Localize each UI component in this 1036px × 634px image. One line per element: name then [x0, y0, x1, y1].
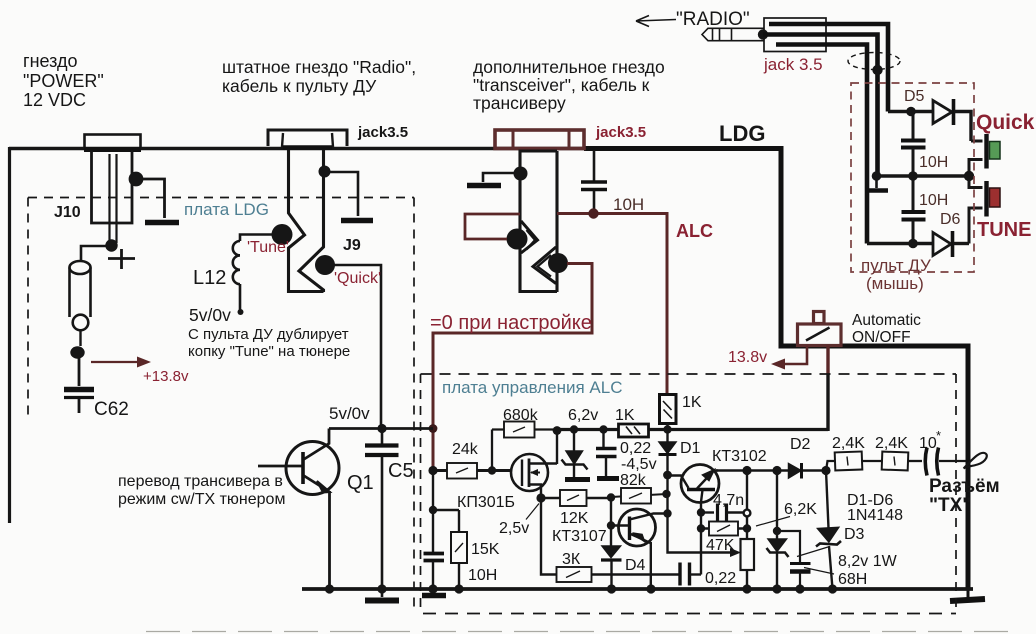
node cap 0.22 tap [599, 425, 607, 433]
wire =0 at tuning maroon [433, 264, 592, 469]
wire 6.2v supply line [556, 430, 558, 465]
svg-text:КТ3107: КТ3107 [552, 528, 607, 545]
diode D6 [933, 233, 951, 256]
callout line 68N [804, 568, 834, 575]
svg-text:4,7n: 4,7n [713, 492, 744, 509]
arrow to RADIO [636, 16, 676, 27]
svg-text:Q1: Q1 [347, 472, 374, 494]
wire gate line from =0 node [433, 469, 511, 472]
resistor 12K [560, 490, 587, 506]
capacitor 10N lower remote [912, 176, 915, 211]
wire cable line3 [776, 45, 867, 244]
wire switch to 13.8v arrow maroon [782, 346, 807, 365]
zener diode 6.2v [573, 430, 575, 452]
box plata ALC dashed right [955, 374, 957, 610]
svg-text:10Н: 10Н [468, 567, 497, 584]
wire L12 down 5v/0v stub [239, 284, 242, 310]
node transceiver ring contact [548, 253, 568, 273]
resistor 3K [557, 567, 592, 582]
svg-text:1K: 1K [682, 394, 702, 411]
node 15K rail [454, 584, 463, 593]
wire ALC line maroon [557, 214, 667, 396]
svg-text:680k: 680k [503, 407, 539, 424]
node 680k gate junction [488, 466, 496, 474]
svg-text:13.8v: 13.8v [728, 349, 767, 366]
svg-text:jack 3.5: jack 3.5 [763, 55, 823, 74]
node 82k junction [662, 490, 670, 498]
connector jack 3.5 plug tip [702, 28, 713, 40]
wire Quick contact down to 5v/0v node [333, 265, 381, 428]
resistor 82k [611, 494, 667, 497]
svg-text:jack3.5: jack3.5 [357, 124, 408, 141]
svg-text:С пульта ДУ дублирует: С пульта ДУ дублирует [188, 326, 349, 343]
node 2.5v [536, 493, 545, 502]
svg-text:D3: D3 [844, 526, 865, 543]
capacitor 0.22 lower [678, 563, 681, 586]
svg-text:2,5v: 2,5v [499, 520, 529, 537]
wire 5v/0v line [329, 427, 433, 430]
svg-text:дополнительное гнездо: дополнительное гнездо [473, 57, 665, 77]
wire KT3102 collector line [716, 469, 826, 472]
wire remote middle line [876, 174, 969, 177]
connector J9 jack socket left contact [289, 150, 324, 292]
node J10 pin dot [105, 239, 117, 251]
capacitor C5 [381, 428, 384, 444]
capacitor 10N board [432, 510, 434, 553]
capacitor 0.22 upper [602, 430, 604, 448]
svg-text:"POWER": "POWER" [23, 71, 104, 91]
svg-text:2,4K: 2,4K [875, 435, 908, 452]
svg-text:6,2v: 6,2v [568, 407, 598, 424]
svg-text:10: 10 [919, 435, 937, 452]
svg-text:J10: J10 [54, 204, 81, 221]
node 4.7n junction [697, 508, 705, 516]
box plata LDG dashed right [413, 198, 415, 614]
box plata LDG dashed left [27, 198, 29, 421]
wire D5 anode line [888, 110, 933, 113]
node zener cap branch [773, 527, 781, 535]
svg-text:TUNE: TUNE [977, 219, 1031, 241]
wire Q1 emitter to rail [328, 491, 331, 589]
cable shield ellipse [848, 53, 900, 70]
svg-text:D5: D5 [904, 88, 925, 105]
svg-text:C62: C62 [94, 399, 129, 420]
node D4 top junction [607, 521, 615, 529]
svg-text:0,22: 0,22 [705, 570, 736, 587]
node J9 sleeve junction [319, 166, 331, 178]
svg-text:-4,5v: -4,5v [621, 456, 657, 473]
wire D6 line [867, 242, 933, 245]
node C5 top [377, 424, 386, 433]
node drain bend [553, 426, 562, 435]
svg-text:1K: 1K [615, 407, 635, 424]
wire Tune contact to L12 [240, 235, 277, 242]
svg-text:режим cw/TX тюнером: режим cw/TX тюнером [118, 491, 285, 508]
svg-text:Automatic: Automatic [852, 312, 921, 329]
wire tip contact loop maroon [465, 214, 520, 239]
wire J10 sleeve to ground [136, 179, 165, 218]
wire cable line2 [763, 35, 878, 177]
node middle left [872, 171, 882, 181]
svg-text:C5: C5 [388, 460, 414, 482]
capacitor 10 star [925, 448, 927, 476]
node J10 sleeve junction [129, 172, 144, 187]
node Q1 emitter rail [325, 584, 334, 593]
svg-text:*: * [936, 428, 941, 443]
button TUNE contacts [969, 176, 983, 188]
wire KT3102 emitter down [701, 490, 703, 575]
node KT3107 base junction [663, 509, 671, 517]
resistor 2.4K second [882, 452, 909, 471]
button TUNE plunger and cap red [984, 181, 988, 217]
node 12K 82k junction [607, 493, 615, 501]
node D4 rail [607, 584, 616, 593]
wire KT3107 emitter to rail [650, 542, 652, 589]
connector jack 3.5 plug body [764, 18, 826, 52]
svg-text:12K: 12K [560, 510, 589, 527]
resistor 15K [458, 510, 460, 532]
svg-text:ON/OFF: ON/OFF [852, 329, 911, 346]
connector transceiver jack socket left contact [520, 151, 557, 292]
box plata LDG dashed top [28, 197, 414, 199]
button Quick contacts [971, 140, 983, 143]
ground J9 sleeve [341, 218, 373, 224]
svg-text:D4: D4 [625, 557, 646, 574]
transistor KT3107 [619, 509, 656, 546]
capacitor 10N upper remote [912, 112, 915, 140]
box plata ALC dashed left [420, 374, 422, 613]
svg-text:"transceiver", кабель к: "transceiver", кабель к [473, 75, 650, 95]
svg-text:10Н: 10Н [613, 195, 644, 214]
svg-text:10Н: 10Н [919, 154, 948, 171]
wire ground rail bottom [302, 587, 973, 591]
wire main 12V bus top [9, 147, 586, 150]
callout line 6.2K [756, 517, 790, 527]
svg-text:24k: 24k [452, 441, 479, 458]
switch Automatic ON/OFF body [798, 324, 842, 346]
box plata ALC dashed top [421, 373, 957, 375]
transistor KP301B mosfet [511, 454, 548, 491]
capacitor 4.7n [701, 511, 714, 513]
node zener rail [772, 584, 781, 593]
svg-text:10Н: 10Н [919, 192, 948, 209]
node +13.8v tap [70, 346, 84, 358]
node cable junction [872, 65, 882, 75]
wire 680k left leg [491, 430, 493, 471]
capacitor at 6.2K zener [777, 531, 800, 563]
fuse barrel body [70, 261, 91, 274]
node C5 rail [377, 584, 386, 593]
transistor Q1 [286, 442, 339, 495]
node transceiver tip contact [507, 229, 528, 250]
node transceiver sleeve junction [514, 167, 528, 181]
node J9 Tune contact [272, 224, 293, 245]
node 1K D1 junction [663, 425, 671, 433]
capacitor C62 [64, 387, 94, 393]
scan artifact faint bottom line [146, 631, 1012, 633]
wire 2.5v node line [541, 497, 611, 499]
node middle right [964, 171, 974, 181]
resistor 2.4K first [835, 452, 863, 471]
svg-text:L12: L12 [193, 267, 226, 289]
node collector line a [742, 466, 751, 475]
node cap rail [795, 584, 804, 593]
ground J10 sleeve [145, 220, 179, 226]
resistor 1K vertical [660, 395, 677, 424]
wire arrow +13.8v [91, 361, 140, 363]
svg-text:Разъём: Разъём [929, 476, 1000, 497]
svg-text:ALC: ALC [676, 221, 713, 241]
node gate line left [428, 466, 437, 475]
svg-text:кабель к пульту ДУ: кабель к пульту ДУ [222, 76, 377, 96]
node J9 Quick contact [315, 255, 335, 275]
wire to TX pigtail [939, 460, 966, 462]
svg-text:трансиверу: трансиверу [473, 93, 566, 113]
resistor 47K [701, 527, 746, 529]
node plug tip dot [758, 29, 768, 39]
zener diode 6.2K [776, 471, 778, 540]
connector J10 socket body [92, 150, 133, 223]
svg-text:копку "Tune" на тюнере: копку "Tune" на тюнере [188, 343, 350, 360]
potentiometer 47K vertical [746, 471, 748, 540]
svg-text:5v/0v: 5v/0v [329, 404, 370, 423]
ground transceiver sleeve [467, 183, 501, 189]
node KT3107 rail [646, 584, 655, 593]
svg-text:плата управления ALC: плата управления ALC [442, 378, 623, 397]
resistor 1K horizontal [619, 424, 649, 437]
svg-text:КП301Б: КП301Б [457, 494, 515, 511]
svg-text:+13.8v: +13.8v [143, 368, 189, 385]
diode D1 [666, 430, 668, 443]
wire J10 pin down [81, 246, 112, 261]
node zener 6.2v tap [570, 425, 578, 433]
node D2 out junction [821, 466, 830, 475]
svg-text:82k: 82k [620, 472, 647, 489]
node 47K left junction [697, 524, 705, 532]
resistor 680k [504, 422, 535, 438]
svg-text:перевод трансивера в: перевод трансивера в [118, 473, 283, 490]
svg-text:jack3.5: jack3.5 [595, 124, 646, 141]
svg-text:68Н: 68Н [838, 571, 867, 588]
svg-text:3К: 3К [562, 551, 581, 568]
connector Radio plug top at J9 [268, 130, 347, 146]
svg-text:8,2v 1W: 8,2v 1W [838, 553, 898, 570]
svg-text:штатное гнездо "Radio",: штатное гнездо "Radio", [222, 57, 416, 77]
svg-text:плата LDG: плата LDG [184, 200, 269, 219]
ground remote middle [875, 176, 878, 188]
node D6 line junction [908, 239, 918, 249]
pin J10 center pin [110, 154, 117, 243]
svg-text:2,4K: 2,4K [832, 435, 865, 452]
svg-text:1N4148: 1N4148 [847, 507, 903, 524]
switch lever [806, 328, 830, 341]
node pot rail [742, 584, 751, 593]
box plata ALC dashed bottom [423, 613, 956, 615]
svg-text:'Tune': 'Tune' [247, 239, 289, 256]
inductor L12 [233, 241, 240, 284]
svg-text:"ТХ": "ТХ" [929, 495, 971, 516]
svg-text:D2: D2 [790, 436, 811, 453]
svg-text:гнездо: гнездо [23, 51, 78, 71]
ground cap 0.22 upper [597, 476, 619, 481]
wire to pot wiper [668, 514, 733, 553]
ground below rail at C5 [381, 589, 384, 597]
ground zener 6.2v [565, 477, 590, 482]
box remote control dashed [851, 83, 974, 272]
callout line 8.2v [797, 547, 828, 557]
svg-text:КТ3102: КТ3102 [712, 448, 767, 465]
node D3 rail [828, 584, 837, 593]
svg-text:0,22: 0,22 [620, 440, 651, 457]
svg-text:(мышь): (мышь) [866, 274, 924, 293]
svg-text:'Quick': 'Quick' [334, 270, 381, 287]
diode D5 [933, 101, 952, 124]
diode D4 [610, 498, 612, 546]
svg-text:LDG: LDG [719, 121, 765, 146]
ground below rail at 10N [432, 589, 434, 592]
diode D2 [789, 464, 802, 479]
ground bottom right [967, 589, 970, 597]
node open circle junction [744, 510, 751, 517]
node D1 base junction [663, 471, 672, 480]
node middle center [908, 171, 918, 181]
wire cable line1 [769, 24, 888, 112]
resistor 24k [447, 463, 477, 479]
wire transceiver sleeve to ground [483, 173, 520, 182]
svg-text:пульт ДУ: пульт ДУ [861, 256, 931, 275]
svg-text:=0 при настройке: =0 при настройке [430, 312, 592, 334]
svg-text:J9: J9 [343, 237, 361, 254]
svg-text:Quick: Quick [976, 111, 1035, 134]
wire switch output down to ALC board [826, 346, 829, 375]
capacitor 10N transceiver [593, 150, 596, 181]
wire thick 13.8v feed right side [781, 148, 968, 589]
wire left border vertical [8, 147, 11, 523]
svg-text:D1: D1 [680, 440, 701, 457]
transistor KT3102 [681, 465, 719, 503]
svg-text:5v/0v: 5v/0v [189, 305, 231, 325]
polarity plus mark [108, 249, 135, 269]
wire TX pigtail loop [964, 453, 987, 469]
svg-text:15K: 15K [471, 541, 500, 558]
svg-text:D6: D6 [940, 211, 961, 228]
node 5v line crossing [429, 424, 438, 433]
connector J9 jack socket right contact [299, 150, 324, 292]
callout line 2.5v [526, 504, 539, 520]
connector POWER plug top [85, 135, 141, 149]
wire main bus thick LDG segment [584, 146, 784, 151]
wire TX line stub [826, 461, 835, 471]
node D5 line junction [906, 107, 916, 117]
wire J9 sleeve to ground [324, 172, 358, 216]
connector transceiver plug top maroon [495, 130, 584, 149]
button Quick plunger and cap green [984, 134, 988, 169]
wire node to C62 [78, 357, 81, 386]
connector transceiver jack socket right contact [555, 151, 558, 292]
node 10N rail [428, 584, 437, 593]
node collector line b [772, 466, 781, 475]
svg-text:"RADIO": "RADIO" [676, 9, 750, 30]
svg-text:12 VDC: 12 VDC [23, 90, 86, 110]
wire 15K 10N branch [432, 471, 434, 511]
svg-text:6,2K: 6,2K [784, 501, 817, 518]
zener diode D3 [826, 471, 829, 529]
node 47K right junction [743, 524, 751, 532]
node branch split [429, 506, 437, 514]
svg-text:47K: 47K [706, 537, 735, 554]
wire 3K line [541, 498, 679, 575]
node ALC cap junction [588, 208, 598, 218]
wire Q1 base stub [258, 465, 303, 468]
wire barrel to node [79, 330, 81, 346]
